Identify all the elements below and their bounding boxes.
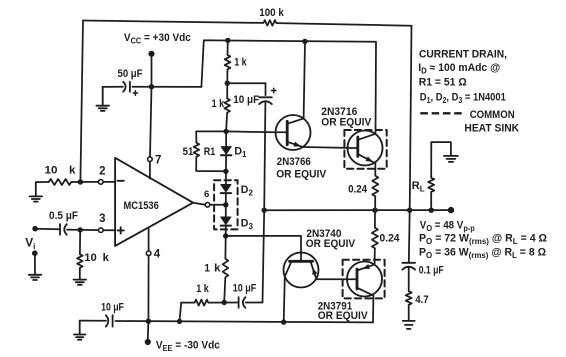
svg-text:OR EQUIV: OR EQUIV [321, 117, 372, 129]
svg-text:0.24: 0.24 [348, 184, 367, 196]
svg-text:CURRENT DRAIN,: CURRENT DRAIN, [419, 49, 507, 61]
svg-text:1 k: 1 k [196, 283, 209, 295]
svg-text:6: 6 [204, 189, 209, 200]
svg-text:3: 3 [99, 213, 105, 225]
svg-text:OR EQUIV: OR EQUIV [276, 168, 327, 180]
svg-text:0.5 μF: 0.5 μF [49, 210, 78, 222]
svg-text:10 μF: 10 μF [233, 94, 259, 106]
svg-text:COMMON: COMMON [470, 109, 515, 121]
svg-text:10 μF: 10 μF [101, 302, 124, 314]
svg-text:7: 7 [155, 154, 161, 166]
svg-text:51: 51 [183, 146, 194, 158]
svg-text:50 μF: 50 μF [118, 68, 143, 80]
svg-text:2N3766: 2N3766 [277, 156, 311, 168]
svg-text:2: 2 [99, 165, 105, 177]
svg-text:100 k: 100 k [259, 7, 284, 19]
svg-text:R1: R1 [204, 146, 216, 158]
svg-text:0.24: 0.24 [380, 233, 400, 245]
svg-text:k: k [69, 165, 76, 177]
svg-text:k: k [214, 263, 221, 275]
svg-text:10 μF: 10 μF [233, 282, 257, 294]
svg-text:R1 = 51 Ω: R1 = 51 Ω [419, 77, 467, 89]
svg-text:0.1 μF: 0.1 μF [419, 264, 444, 276]
svg-text:MC1536: MC1536 [124, 200, 159, 212]
svg-text:10: 10 [84, 252, 97, 264]
svg-text:OR EQUIV: OR EQUIV [306, 238, 356, 250]
svg-text:1 k: 1 k [234, 56, 247, 68]
svg-text:4.7: 4.7 [415, 294, 429, 306]
svg-text:k: k [103, 252, 109, 264]
svg-text:10: 10 [45, 165, 58, 177]
svg-text:HEAT SINK: HEAT SINK [464, 122, 519, 134]
svg-text:1: 1 [204, 263, 210, 275]
svg-text:1 k: 1 k [212, 98, 225, 110]
svg-text:D1​, D2​, D3​ = 1N4001: D1​, D2​, D3​ = 1N4001 [420, 92, 506, 106]
svg-text:ID​ ≈ 100 mAdc @: ID​ ≈ 100 mAdc @ [418, 62, 500, 76]
svg-text:4: 4 [154, 249, 161, 261]
svg-text:OR EQUIV: OR EQUIV [318, 310, 369, 322]
